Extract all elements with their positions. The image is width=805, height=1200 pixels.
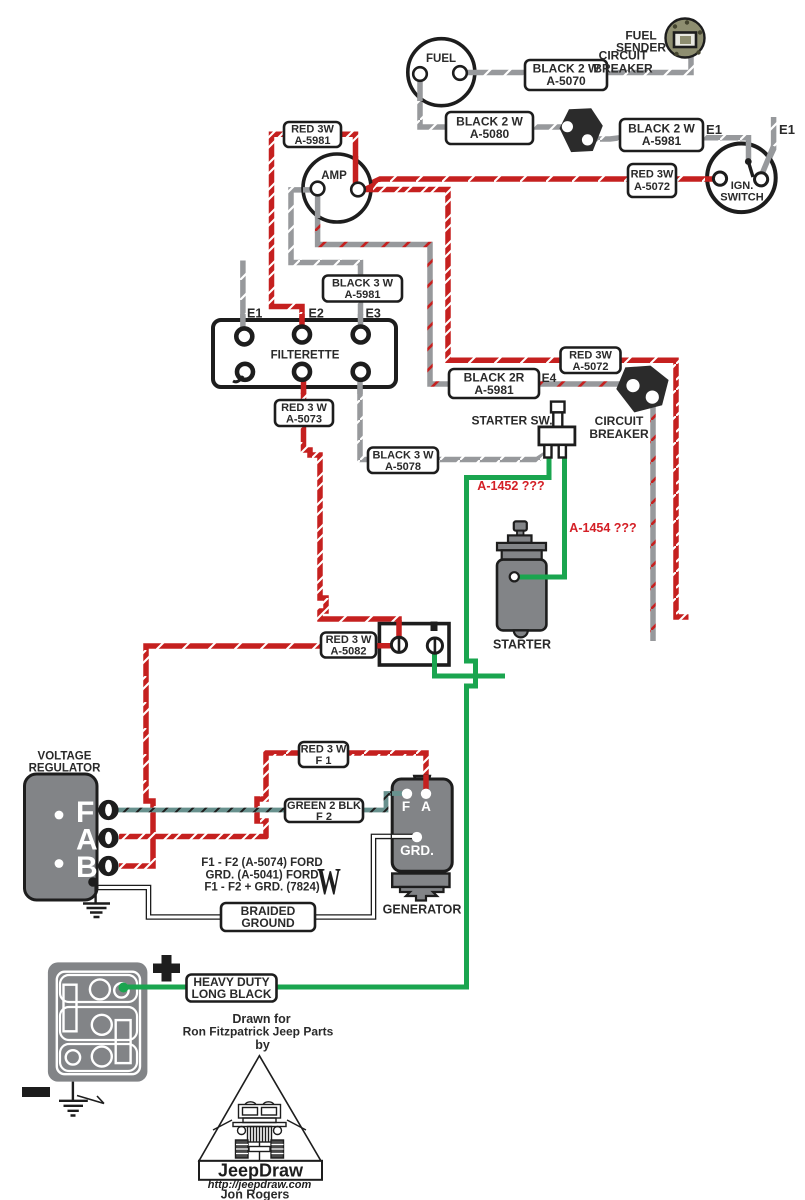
generator bbox=[383, 775, 462, 917]
wire BLACK 3 W stub to filterette E1 bbox=[240, 261, 246, 331]
wire RED 3 W A-5073 filterette to junction block bbox=[304, 375, 400, 638]
svg-text:A-5981: A-5981 bbox=[474, 383, 514, 397]
regulator ground symbol bbox=[83, 882, 110, 917]
wire E1 stub to ignition switch right terminal bbox=[762, 117, 774, 174]
svg-text:A-5078: A-5078 bbox=[385, 461, 421, 473]
wire RED regulator A to generator armature with RED 3W F1 label bbox=[119, 753, 426, 837]
svg-text:BREAKER: BREAKER bbox=[593, 62, 653, 76]
svg-text:E3: E3 bbox=[366, 307, 381, 321]
svg-text:E1: E1 bbox=[779, 122, 795, 137]
wire green main trunk starter switch to battery positive bbox=[126, 455, 549, 987]
svg-text:RED 3W: RED 3W bbox=[569, 350, 612, 362]
wire braided ground white core bbox=[94, 836, 414, 917]
label BLACK 2 W A-5080 bbox=[446, 112, 533, 144]
svg-text:CIRCUIT: CIRCUIT bbox=[599, 49, 648, 63]
JeepDraw logo bbox=[199, 1056, 322, 1180]
svg-text:A-5981: A-5981 bbox=[344, 289, 380, 301]
svg-text:STARTER: STARTER bbox=[493, 638, 551, 652]
starter switch bbox=[539, 402, 575, 458]
battery plus symbol bbox=[153, 955, 180, 982]
filterette bbox=[213, 307, 396, 395]
label BLACK 2 W A-5070 bbox=[525, 60, 607, 90]
svg-text:FILTERETTE: FILTERETTE bbox=[271, 350, 340, 362]
svg-text:FUEL: FUEL bbox=[426, 53, 456, 65]
svg-text:GENERATOR: GENERATOR bbox=[383, 903, 462, 917]
svg-text:RED 3W: RED 3W bbox=[631, 169, 674, 181]
svg-text:RED 3 W: RED 3 W bbox=[301, 744, 347, 756]
svg-text:A-5070: A-5070 bbox=[546, 74, 586, 88]
svg-text:LONG BLACK: LONG BLACK bbox=[192, 987, 272, 1001]
label BLACK 3 W A-5981 bbox=[323, 276, 402, 302]
junction block A-5082 bbox=[377, 620, 449, 668]
label BRAIDED GROUND bbox=[221, 903, 315, 931]
battery ground symbol bbox=[59, 1082, 104, 1116]
wire BLACK 2 W A-5080 fuel gauge to circuit breaker 1 bbox=[420, 78, 567, 127]
svg-text:GRD. (A-5041) FORD: GRD. (A-5041) FORD bbox=[205, 870, 318, 882]
circuit breaker 2 bbox=[616, 366, 668, 413]
wire RED 3 W A-5082 junction block to voltage regulator B bbox=[119, 646, 392, 866]
wire RED 3W A-5981 ammeter to filterette E2 bbox=[272, 134, 356, 328]
label RED 3 W A-5082 bbox=[321, 633, 376, 658]
svg-text:RED 3 W: RED 3 W bbox=[326, 634, 372, 646]
label RED 3W A-5981 bbox=[284, 122, 341, 147]
svg-text:Jon Rogers: Jon Rogers bbox=[221, 1188, 290, 1200]
wire green junction block tee bbox=[435, 650, 506, 676]
svg-text:SWITCH: SWITCH bbox=[720, 192, 763, 204]
svg-text:GROUND: GROUND bbox=[241, 916, 295, 930]
svg-text:IGN.: IGN. bbox=[731, 180, 754, 192]
wire RED 3W A-5072 ignition switch to ammeter bbox=[358, 179, 714, 190]
wire RED ammeter to lower RED 3W A-5072 run bbox=[358, 190, 689, 618]
svg-text:AMP: AMP bbox=[321, 170, 347, 182]
wire GREEN 2 BLK F 2 regulator F to generator F bbox=[116, 794, 404, 811]
svg-text:A-5981: A-5981 bbox=[294, 135, 330, 147]
battery bbox=[48, 962, 150, 1081]
svg-text:A-5073: A-5073 bbox=[286, 414, 322, 426]
wire grey-red from circuit breaker 2 down bbox=[650, 400, 656, 641]
svg-text:A-5080: A-5080 bbox=[470, 127, 510, 141]
label RED 3 W F 1 bbox=[299, 742, 348, 767]
wire BLACK 2R A-5981 ammeter to circuit breaker 2 E4 bbox=[318, 194, 627, 384]
svg-text:RED 3 W: RED 3 W bbox=[281, 402, 327, 414]
svg-text:BLACK 3 W: BLACK 3 W bbox=[332, 278, 394, 290]
svg-text:RED 3W: RED 3W bbox=[291, 124, 334, 136]
svg-text:E4: E4 bbox=[542, 371, 557, 385]
wire green starter switch to starter motor bbox=[518, 455, 565, 577]
regulator ground node bbox=[88, 877, 98, 887]
wire BLACK 3 W A-5078 filterette to starter switch bbox=[360, 375, 549, 460]
svg-text:A-5072: A-5072 bbox=[572, 361, 608, 373]
wire braided ground outline bbox=[94, 836, 414, 917]
svg-text:F 1: F 1 bbox=[316, 755, 332, 767]
svg-text:F 2: F 2 bbox=[316, 811, 332, 823]
svg-text:GRD.: GRD. bbox=[400, 843, 434, 858]
svg-text:by: by bbox=[255, 1038, 270, 1052]
label RED 3W A-5072 bottom bbox=[561, 348, 621, 374]
svg-text:A-1452 ???: A-1452 ??? bbox=[477, 479, 544, 493]
label RED 3 W A-5073 bbox=[275, 400, 333, 426]
svg-text:F1 - F2 + GRD. (7824): F1 - F2 + GRD. (7824) bbox=[204, 882, 320, 894]
svg-text:BREAKER: BREAKER bbox=[589, 427, 649, 441]
label HEAVY DUTY LONG BLACK bbox=[187, 975, 277, 1002]
wire BLACK 2 W A-5070 fuel gauge to fuel sender bbox=[460, 44, 691, 73]
label BLACK 3 W A-5078 bbox=[368, 448, 438, 474]
svg-text:E1: E1 bbox=[706, 122, 722, 137]
svg-text:A-1454 ???: A-1454 ??? bbox=[569, 521, 636, 535]
label BLACK 2 W A-5981 top right bbox=[620, 119, 703, 151]
circuit breaker 1 bbox=[560, 108, 603, 152]
starter motor bbox=[493, 521, 551, 651]
svg-text:E1: E1 bbox=[247, 307, 262, 321]
label BLACK 2R A-5981 bbox=[449, 369, 539, 398]
svg-text:A-5981: A-5981 bbox=[642, 134, 682, 148]
wire BLACK 3 W A-5981 ammeter to filterette E3 bbox=[291, 190, 361, 328]
svg-text:BLACK 3 W: BLACK 3 W bbox=[372, 450, 434, 462]
svg-text:Ron Fitzpatrick Jeep Parts: Ron Fitzpatrick Jeep Parts bbox=[183, 1025, 334, 1039]
label RED 3W A-5072 top bbox=[628, 164, 676, 197]
ammeter AMP gauge bbox=[303, 154, 380, 222]
svg-text:F1 - F2 (A-5074) FORD: F1 - F2 (A-5074) FORD bbox=[201, 857, 322, 869]
ignition key bbox=[745, 158, 752, 165]
svg-text:STARTER SW.: STARTER SW. bbox=[471, 414, 552, 428]
wire BLACK 2 W A-5981 circuit breaker 1 to ignition switch E1 bbox=[587, 138, 749, 160]
fuel gauge bbox=[408, 39, 477, 106]
svg-text:A-5072: A-5072 bbox=[634, 181, 670, 193]
label GREEN 2 BLK F 2 bbox=[285, 799, 363, 823]
svg-text:F: F bbox=[402, 799, 410, 814]
ignition switch bbox=[705, 142, 776, 212]
fuel sender bbox=[666, 19, 705, 58]
svg-text:E2: E2 bbox=[309, 307, 324, 321]
svg-text:VOLTAGE: VOLTAGE bbox=[38, 751, 92, 763]
Willys W logo bbox=[317, 860, 341, 902]
battery minus symbol bbox=[22, 1087, 50, 1097]
svg-text:JeepDraw: JeepDraw bbox=[218, 1161, 304, 1181]
svg-text:A: A bbox=[421, 799, 431, 814]
jeep front view bbox=[233, 1102, 286, 1158]
voltage regulator bbox=[25, 751, 119, 918]
svg-text:CIRCUIT: CIRCUIT bbox=[595, 414, 644, 428]
svg-text:A-5082: A-5082 bbox=[330, 646, 366, 658]
